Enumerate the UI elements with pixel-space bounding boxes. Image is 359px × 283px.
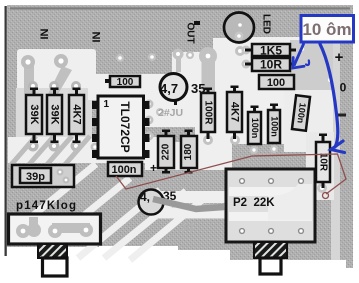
- small pad with stem: [176, 54, 181, 72]
- svg-text:1: 1: [104, 99, 110, 110]
- svg-text:2#JU: 2#JU: [158, 107, 183, 119]
- svg-text:4,: 4,: [140, 190, 150, 204]
- svg-text:39K: 39K: [28, 104, 40, 124]
- copper band under 220/180: [145, 142, 232, 170]
- capacitor 39p: [12, 165, 74, 187]
- copper area out region: [172, 52, 213, 103]
- svg-text:39K: 39K: [49, 104, 61, 124]
- capacitor C 4,7/35 (bottom electrolytic): [139, 189, 225, 215]
- resistor 39K (R1): [26, 88, 42, 144]
- P2 shaft: [254, 242, 287, 258]
- copper band mid-right: [143, 95, 285, 127]
- resistor 10R (right vertical): [316, 134, 330, 189]
- svg-text:100: 100: [117, 77, 134, 88]
- pad below IC: [91, 143, 100, 152]
- svg-text:10R: 10R: [260, 58, 282, 72]
- svg-text:TL072CP: TL072CP: [118, 101, 132, 152]
- copper area middle: [88, 74, 205, 100]
- red annotation wire: [116, 154, 346, 194]
- capacitor 180 (vertical): [181, 130, 197, 174]
- svg-text:100n: 100n: [111, 164, 136, 176]
- capacitor 100 (top): [105, 76, 140, 88]
- pads right of IC: [145, 100, 154, 109]
- copper band right of P2: [306, 132, 334, 200]
- red node circle: [323, 193, 329, 199]
- svg-text:LED: LED: [260, 14, 271, 34]
- capacitor 100n (mid-left horizontal): [108, 162, 142, 176]
- capacitor 100n (horizontal, right): [259, 75, 294, 89]
- potentiometer P1: [9, 214, 101, 276]
- svg-text:100n: 100n: [250, 118, 260, 139]
- svg-text:4K7: 4K7: [229, 102, 241, 122]
- U1 pins left: [92, 101, 98, 109]
- svg-text:+: +: [335, 49, 344, 66]
- svg-text:IN: IN: [91, 31, 103, 42]
- P1 knob: [43, 258, 68, 276]
- capacitor C 4,7/35 (top electrolytic): [160, 74, 205, 106]
- resistor 100R (vertical): [201, 88, 215, 140]
- right edge light copper band: [331, 42, 340, 260]
- blue arrow to 10R (horizontal resistor): [293, 44, 309, 68]
- resistor 1K5: [245, 44, 296, 58]
- minus mark right edge: [336, 114, 346, 117]
- svg-text:220: 220: [161, 143, 172, 160]
- svg-text:100n: 100n: [270, 116, 280, 137]
- small hole pads top middle: [116, 54, 124, 62]
- big pad with stem (out trace): [202, 58, 216, 103]
- pads left of 1K5/10R: [242, 46, 251, 55]
- resistor 10R: [245, 58, 296, 72]
- pads around 100R / 4K7: [203, 135, 213, 145]
- resistor 4K7 (vertical, right): [227, 86, 242, 140]
- P1 shaft: [38, 244, 67, 258]
- svg-text:IN: IN: [39, 28, 51, 39]
- op-amp U1 TL072CP: [92, 96, 150, 158]
- svg-text:4,7: 4,7: [160, 81, 178, 96]
- copper area top-left: [17, 49, 96, 94]
- copper band far right of resistors: [290, 40, 333, 100]
- LED D1: [224, 13, 254, 43]
- pads below left resistors: [28, 141, 39, 152]
- resistor 4K7 (R3): [69, 88, 84, 144]
- blue arrow (long curve to right 10R): [320, 44, 345, 153]
- svg-text:1K5: 1K5: [260, 44, 282, 58]
- pads above left resistors: [28, 81, 38, 91]
- potentiometer P2 22K: [226, 169, 315, 274]
- diagonal copper stripes bottom-left: [30, 164, 207, 260]
- P2 knob: [260, 258, 281, 274]
- pad: [54, 54, 68, 68]
- resistor 39K (R2): [47, 88, 62, 144]
- copper band mid-left: [8, 137, 157, 163]
- capacitor 100n (small, second): [268, 104, 280, 144]
- copper area right of resistors: [244, 37, 310, 100]
- U1 pins right: [144, 101, 150, 109]
- svg-text:180: 180: [183, 143, 194, 160]
- copper double band into P2: [155, 191, 232, 203]
- svg-text:39p: 39p: [26, 171, 45, 183]
- LED lead tick: [194, 21, 200, 25]
- svg-text:.JU: .JU: [178, 223, 194, 234]
- capacitor 220 (vertical): [158, 130, 174, 174]
- svg-text:P2 22K: P2 22K: [233, 197, 275, 209]
- svg-text:100: 100: [267, 77, 285, 89]
- capacitor 100n (small, first): [248, 106, 261, 145]
- svg-text:+: +: [150, 161, 157, 175]
- copper band behind third 100n: [284, 90, 333, 152]
- annotation box 10 ohm: [301, 16, 354, 43]
- svg-text:4K7: 4K7: [71, 104, 83, 124]
- capacitor 100n (third): [292, 95, 310, 130]
- top edge shadow line: [10, 7, 350, 9]
- svg-text:10R: 10R: [317, 153, 328, 172]
- svg-text:OUT: OUT: [184, 22, 195, 43]
- left edge dark line: [5, 6, 7, 256]
- copper area behind left resistors: [16, 88, 92, 140]
- pad below right 10R: [317, 183, 327, 193]
- gray trace details in top-left copper: [24, 66, 34, 94]
- svg-text:0: 0: [340, 81, 347, 95]
- gray diagonal stripes over mid-left copper band: [10, 136, 90, 168]
- svg-text:10 ôm: 10 ôm: [302, 20, 351, 39]
- svg-text:100R: 100R: [202, 101, 213, 126]
- pad: [21, 55, 35, 69]
- svg-text:p147Klog: p147Klog: [16, 200, 76, 212]
